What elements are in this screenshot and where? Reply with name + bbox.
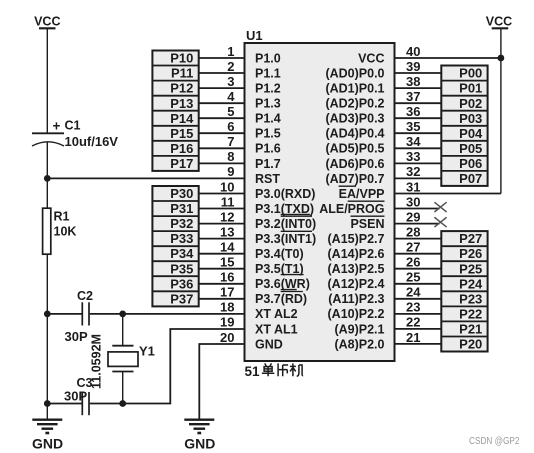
wire pin 16 <box>199 270 245 285</box>
connector P27-P20 <box>441 231 487 352</box>
svg-text:P21: P21 <box>459 322 482 337</box>
wire: chip GND pin 20 left and down to ground <box>199 344 244 420</box>
svg-text:P25: P25 <box>459 261 482 276</box>
IC U1 left pin labels <box>255 51 316 351</box>
svg-text:P27: P27 <box>459 231 482 246</box>
svg-text:35: 35 <box>406 119 420 134</box>
capacitor C3 30P <box>47 376 122 415</box>
svg-text:10: 10 <box>220 179 234 194</box>
svg-text:11: 11 <box>221 194 235 209</box>
svg-text:6: 6 <box>227 119 234 134</box>
svg-text:P03: P03 <box>459 111 482 126</box>
svg-text:(A10)P2.2: (A10)P2.2 <box>328 307 385 321</box>
svg-text:(AD0)P0.0: (AD0)P0.0 <box>325 67 384 81</box>
wire pin 1 <box>199 44 245 59</box>
svg-text:P01: P01 <box>459 81 482 96</box>
svg-text:C1: C1 <box>65 119 81 133</box>
svg-text:P20: P20 <box>459 337 482 352</box>
svg-text:U1: U1 <box>246 28 263 43</box>
svg-text:P22: P22 <box>459 307 482 322</box>
svg-text:EA/VPP: EA/VPP <box>339 187 385 201</box>
svg-text:P32: P32 <box>170 216 193 231</box>
wire: RST row 9 to chip pin 9 <box>47 177 244 179</box>
wire: C2 node to chip XTAL2 pin 18 <box>123 313 245 315</box>
node: junction dot at RST row <box>44 175 51 182</box>
svg-text:25: 25 <box>406 270 420 285</box>
wire pin 37 <box>395 89 442 104</box>
wire pin 8 <box>199 149 245 164</box>
svg-text:P07: P07 <box>459 171 482 186</box>
svg-text:Y1: Y1 <box>139 344 155 359</box>
wire pin 22 <box>395 315 442 330</box>
svg-text:(AD6)P0.6: (AD6)P0.6 <box>325 157 384 171</box>
wire pin 5 <box>199 104 245 119</box>
svg-text:P12: P12 <box>170 81 193 96</box>
svg-text:10K: 10K <box>54 225 77 239</box>
svg-text:P24: P24 <box>459 276 483 291</box>
svg-text:31: 31 <box>406 179 420 194</box>
power symbol VCC (top left) <box>34 15 60 29</box>
svg-text:(AD4)P0.4: (AD4)P0.4 <box>325 127 384 141</box>
wire pin 24 <box>395 285 442 300</box>
node: junction dot rail/C3 <box>44 400 51 407</box>
wire pin 39 <box>395 59 442 74</box>
wire pin 10 <box>199 179 245 194</box>
svg-text:VCC: VCC <box>34 15 60 29</box>
wire: rail down to ground <box>46 404 48 420</box>
wire pin 40 to VCC rail <box>395 44 501 59</box>
wire: rail R1 down to C2 node <box>46 254 48 314</box>
wire pin 21 <box>395 330 442 345</box>
svg-text:18: 18 <box>220 300 234 315</box>
svg-text:5: 5 <box>227 104 234 119</box>
svg-text:13: 13 <box>220 224 234 239</box>
svg-text:P3.4(T0): P3.4(T0) <box>255 247 304 261</box>
node: junction dot pin40/VCC rail <box>498 55 505 62</box>
svg-text:36: 36 <box>406 104 420 119</box>
svg-text:XT AL1: XT AL1 <box>255 322 298 336</box>
svg-text:C2: C2 <box>77 289 93 303</box>
wire pin 23 <box>395 300 442 315</box>
svg-text:(AD1)P0.1: (AD1)P0.1 <box>325 82 384 96</box>
svg-text:(AD7)P0.7: (AD7)P0.7 <box>325 172 384 186</box>
IC U1 51 MCU body <box>245 28 395 361</box>
svg-text:P1.7: P1.7 <box>255 157 281 171</box>
wire pin 38 <box>395 74 442 89</box>
svg-text:27: 27 <box>406 240 420 255</box>
svg-text:XT AL2: XT AL2 <box>255 307 298 321</box>
svg-text:1: 1 <box>227 44 234 59</box>
wire: crystal bottom node right then up to XTAL1 pin 19 <box>123 329 245 404</box>
svg-text:51: 51 <box>245 364 261 379</box>
wire: right VCC rail <box>500 28 502 193</box>
svg-text:32: 32 <box>406 164 420 179</box>
svg-text:39: 39 <box>406 59 420 74</box>
svg-text:PSEN: PSEN <box>350 217 384 231</box>
svg-text:P33: P33 <box>170 231 193 246</box>
wire pin 35 <box>395 119 442 134</box>
svg-text:34: 34 <box>406 134 421 149</box>
svg-text:VCC: VCC <box>486 15 512 29</box>
svg-text:P1.3: P1.3 <box>255 97 281 111</box>
svg-text:P23: P23 <box>459 291 482 306</box>
node: junction dot crystal top <box>119 311 126 318</box>
svg-text:(AD5)P0.5: (AD5)P0.5 <box>325 142 384 156</box>
svg-text:24: 24 <box>406 285 421 300</box>
svg-text:16: 16 <box>220 270 234 285</box>
svg-text:GND: GND <box>184 436 215 452</box>
svg-text:30P: 30P <box>64 389 87 404</box>
svg-text:P35: P35 <box>170 261 193 276</box>
svg-text:10uf/16V: 10uf/16V <box>65 134 119 149</box>
svg-text:3: 3 <box>227 74 234 89</box>
wire pin 17 <box>199 285 245 300</box>
svg-text:28: 28 <box>406 224 420 239</box>
svg-text:33: 33 <box>406 149 420 164</box>
svg-text:P00: P00 <box>459 66 482 81</box>
svg-text:P36: P36 <box>170 276 193 291</box>
svg-text:CSDN @GP2: CSDN @GP2 <box>469 435 520 447</box>
svg-text:30P: 30P <box>65 329 88 344</box>
wire pin 15 <box>199 255 245 270</box>
svg-text:P37: P37 <box>170 291 193 306</box>
node: junction dot crystal bottom <box>119 400 126 407</box>
svg-text:37: 37 <box>406 89 420 104</box>
wire pin 11 <box>199 194 245 209</box>
svg-text:P26: P26 <box>459 246 482 261</box>
svg-text:12: 12 <box>220 209 234 224</box>
resistor R1 10K <box>43 208 77 254</box>
svg-text:P04: P04 <box>459 126 483 141</box>
crystal Y1 11.0592M <box>90 314 155 404</box>
wire: rail down to C3 node <box>46 314 48 404</box>
connector P10-P17 <box>152 51 198 172</box>
wire pin 4 <box>199 89 245 104</box>
wire: VCC rail down to C1 <box>46 28 48 133</box>
wire pin 12 <box>199 209 245 224</box>
wire pin 26 <box>395 255 442 270</box>
wire pin 30 no-connect <box>395 194 447 212</box>
svg-text:4: 4 <box>227 89 235 104</box>
svg-text:P14: P14 <box>170 111 194 126</box>
wire pin 3 <box>199 74 245 89</box>
svg-text:P11: P11 <box>171 66 193 81</box>
svg-text:GND: GND <box>32 436 63 452</box>
svg-text:26: 26 <box>406 255 420 270</box>
wire pin 7 <box>199 134 245 149</box>
svg-text:P1.2: P1.2 <box>255 82 281 96</box>
svg-text:P1.6: P1.6 <box>255 142 281 156</box>
svg-text:29: 29 <box>406 209 420 224</box>
svg-text:P15: P15 <box>170 126 193 141</box>
svg-text:(AD2)P0.2: (AD2)P0.2 <box>325 97 384 111</box>
wire pin 32 <box>395 164 442 179</box>
svg-text:P13: P13 <box>170 96 193 111</box>
svg-text:17: 17 <box>220 285 234 300</box>
svg-text:P1.0: P1.0 <box>255 51 281 65</box>
svg-text:VCC: VCC <box>358 51 384 65</box>
connector P00-P07 <box>441 66 487 187</box>
ground symbol (left) with GND label <box>32 420 63 452</box>
svg-text:P1.1: P1.1 <box>255 67 281 81</box>
svg-text:8: 8 <box>227 149 234 164</box>
svg-text:ALE/PROG: ALE/PROG <box>319 202 384 216</box>
wire pin 29 no-connect <box>395 209 447 227</box>
svg-text:9: 9 <box>227 164 234 179</box>
svg-text:P1.4: P1.4 <box>255 112 281 126</box>
svg-text:14: 14 <box>220 240 235 255</box>
svg-text:22: 22 <box>406 315 420 330</box>
svg-text:P05: P05 <box>459 141 482 156</box>
svg-text:7: 7 <box>227 134 234 149</box>
svg-text:P1.5: P1.5 <box>255 127 281 141</box>
svg-text:GND: GND <box>255 337 283 351</box>
node: junction dot rail/C2 <box>44 311 51 318</box>
svg-text:P02: P02 <box>459 96 482 111</box>
svg-text:(A8)P2.0: (A8)P2.0 <box>334 337 384 351</box>
svg-text:40: 40 <box>406 44 420 59</box>
svg-text:15: 15 <box>220 255 234 270</box>
svg-text:R1: R1 <box>54 210 70 224</box>
svg-text:(A14)P2.6: (A14)P2.6 <box>328 247 385 261</box>
wire pin 28 <box>395 224 442 239</box>
svg-text:23: 23 <box>406 300 420 315</box>
svg-text:P10: P10 <box>170 51 193 66</box>
svg-text:P34: P34 <box>170 246 194 261</box>
svg-text:(A12)P2.4: (A12)P2.4 <box>328 277 385 291</box>
IC U1 part name 51 MCU (51 danpianji) <box>245 363 304 378</box>
svg-text:P3.2(INT0): P3.2(INT0) <box>255 217 316 231</box>
svg-text:+: + <box>53 119 61 134</box>
svg-text:38: 38 <box>406 74 420 89</box>
svg-text:19: 19 <box>220 315 234 330</box>
svg-text:20: 20 <box>220 330 234 345</box>
wire pin 13 <box>199 224 245 239</box>
svg-text:P30: P30 <box>170 186 193 201</box>
power symbol VCC (top right) <box>486 15 512 29</box>
svg-text:P31: P31 <box>170 201 193 216</box>
svg-text:21: 21 <box>406 330 420 345</box>
svg-text:(A15)P2.7: (A15)P2.7 <box>328 232 385 246</box>
svg-text:(A13)P2.5: (A13)P2.5 <box>328 262 385 276</box>
svg-text:2: 2 <box>227 59 234 74</box>
svg-text:P3.0(RXD): P3.0(RXD) <box>255 187 315 201</box>
capacitor C1 (polarized 10uf/16V) <box>32 119 118 149</box>
wire pin 6 <box>199 119 245 134</box>
wire pin 31 to VCC rail <box>395 179 501 194</box>
wire pin 25 <box>395 270 442 285</box>
wire pin 27 <box>395 240 442 255</box>
svg-text:P3.3(INT1): P3.3(INT1) <box>255 232 316 246</box>
svg-text:P06: P06 <box>459 156 482 171</box>
svg-text:(A9)P2.1: (A9)P2.1 <box>334 322 384 336</box>
wire pin 34 <box>395 134 442 149</box>
svg-text:RST: RST <box>255 172 280 186</box>
wire pin 33 <box>395 149 442 164</box>
svg-text:(AD3)P0.3: (AD3)P0.3 <box>325 112 384 126</box>
svg-text:P17: P17 <box>170 156 193 171</box>
svg-text:30: 30 <box>406 194 420 209</box>
capacitor C2 30P <box>47 289 122 344</box>
wire: rail C1 to RST node <box>46 142 48 209</box>
wire pin 36 <box>395 104 442 119</box>
wire pin 14 <box>199 240 245 255</box>
IC U1 pin-name overlines/underlines <box>281 186 385 291</box>
svg-text:(A11)P2.3: (A11)P2.3 <box>328 292 384 306</box>
ground symbol (middle) with GND label <box>184 420 215 452</box>
wire pin 2 <box>199 59 245 74</box>
svg-text:P3.7(RD): P3.7(RD) <box>255 292 307 306</box>
svg-text:P16: P16 <box>170 141 193 156</box>
IC U1 right pin labels <box>319 51 384 351</box>
connector P30-P37 <box>152 186 198 306</box>
